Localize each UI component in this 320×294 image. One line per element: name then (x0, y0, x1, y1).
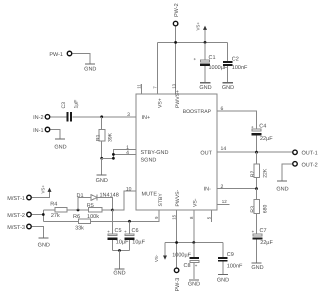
connector pad OUT-2 (293, 162, 318, 169)
connector pad PW-3 (174, 268, 181, 291)
connector pad PW-1 (49, 51, 71, 58)
svg-text:GND: GND (38, 243, 50, 249)
wire C3 to pin 3 (72, 116, 136, 118)
wire C2 to ground (227, 66, 229, 82)
wire mute node to pin 10 (113, 191, 137, 210)
svg-text:OUT-1: OUT-1 (302, 151, 318, 157)
junction at sgnd corner (112, 157, 115, 160)
svg-text:C2: C2 (232, 57, 239, 63)
svg-text:SGND: SGND (141, 158, 157, 164)
wire pin 2 IN- to feedback node (217, 188, 257, 190)
svg-text:IN-1: IN-1 (33, 128, 43, 134)
ground (C5/C6) (113, 269, 125, 277)
svg-text:OUT-2: OUT-2 (302, 162, 318, 168)
svg-text:GND: GND (54, 145, 66, 151)
ground (C8) (188, 280, 200, 288)
svg-text:10µF: 10µF (116, 240, 129, 246)
svg-text:R4: R4 (50, 202, 57, 208)
svg-text:IN-: IN- (204, 187, 212, 193)
svg-text:12: 12 (222, 199, 227, 204)
wire pin 8 to rail (193, 210, 195, 243)
junction M/ST-2 (42, 213, 45, 216)
wire VS+ rail (top) (158, 41, 228, 43)
svg-text:33k: 33k (75, 226, 84, 232)
svg-text:100nF: 100nF (227, 263, 243, 269)
svg-text:22µF: 22µF (260, 136, 273, 142)
node OUT junction (255, 151, 258, 154)
svg-text:PW-3: PW-3 (175, 278, 181, 292)
wire rail to C1 (204, 42, 206, 59)
svg-text:100nF: 100nF (232, 65, 248, 71)
svg-text:PWVS+: PWVS+ (175, 90, 181, 108)
svg-text:GND: GND (251, 265, 263, 271)
node A junction (77, 209, 80, 212)
pin 5 stub (207, 210, 212, 222)
wire R5 to mute node (102, 209, 113, 211)
svg-text:C3: C3 (61, 102, 67, 109)
svg-text:8: 8 (189, 216, 194, 219)
capacitor C8 1000uF (172, 243, 199, 280)
connector pad OUT-1 (293, 150, 318, 156)
svg-text:10µF: 10µF (132, 240, 145, 246)
svg-text:GND: GND (188, 281, 200, 287)
svg-text:GND: GND (113, 271, 125, 277)
wire C7 to ground (256, 240, 258, 263)
svg-text:PW-2: PW-2 (174, 3, 180, 17)
wire rail to C9 (222, 243, 224, 257)
svg-text:M/ST-2: M/ST-2 (7, 213, 25, 219)
ground (C1) (199, 83, 211, 91)
svg-text:14: 14 (221, 146, 227, 152)
svg-text:+: + (194, 57, 197, 62)
svg-text:VS-: VS- (193, 198, 199, 207)
svg-text:BOOSTRAP: BOOSTRAP (183, 109, 212, 115)
svg-text:11: 11 (136, 84, 141, 89)
svg-text:7: 7 (153, 86, 158, 89)
svg-text:9: 9 (154, 216, 159, 219)
node R1 bottom junction (100, 157, 103, 160)
wire R1 bottom to ground (101, 158, 103, 174)
svg-text:M/ST-1: M/ST-1 (7, 196, 25, 202)
svg-text:+: + (252, 229, 255, 234)
svg-text:IN+: IN+ (142, 115, 151, 121)
wire M/ST-2 to network (32, 210, 55, 221)
pin 11 stub (136, 84, 141, 94)
node IN- junction (255, 187, 258, 190)
ground (C7) (251, 263, 263, 271)
svg-text:+: + (251, 124, 254, 129)
svg-text:C1: C1 (209, 55, 216, 61)
wire pin 15 through rail to PW-3 (176, 210, 178, 267)
wire OUT-2 to ground (282, 164, 292, 181)
junction rail at pin 8 (192, 241, 195, 244)
wire C5/C6 ground bus (113, 250, 130, 252)
wire C1 to ground (204, 66, 206, 82)
svg-text:GND: GND (276, 187, 288, 193)
junction on rail at VS+/C1 (204, 41, 207, 44)
supply flag VS+ (top) (196, 22, 208, 43)
supply flag VS+ (M/ST-1) (41, 185, 52, 194)
svg-text:27k: 27k (51, 213, 60, 219)
wire M/ST-3 to ground (32, 227, 43, 238)
svg-text:+: + (107, 229, 110, 234)
capacitor C4 22uF (251, 124, 273, 142)
svg-text:1µF: 1µF (74, 100, 80, 109)
svg-text:C5: C5 (115, 228, 122, 234)
connector pad PW-2 (173, 3, 180, 26)
svg-text:STBY-GND: STBY-GND (141, 150, 169, 156)
svg-text:OUT: OUT (200, 150, 212, 156)
svg-text:1000µF: 1000µF (209, 65, 228, 71)
svg-text:GND: GND (84, 67, 96, 73)
svg-text:R1: R1 (96, 134, 102, 141)
ground (M/ST-3) (38, 238, 50, 249)
connector pad M/ST-1 (7, 195, 31, 202)
capacitor C1 1000uF (194, 55, 228, 71)
svg-text:4: 4 (126, 150, 129, 156)
svg-text:1000µF: 1000µF (172, 252, 191, 258)
svg-text:GND: GND (199, 85, 211, 91)
capacitor C6 10uF (124, 221, 145, 250)
ground (R1) (96, 175, 108, 184)
junction on rail at PW-2 (174, 41, 177, 44)
svg-text:GND: GND (222, 85, 234, 91)
svg-text:IN-2: IN-2 (33, 115, 43, 121)
ground (IN-1) (54, 139, 66, 151)
svg-text:GND: GND (217, 278, 229, 284)
svg-text:+: + (195, 263, 198, 268)
ground (OUT-2) (276, 181, 288, 193)
svg-text:PW-1: PW-1 (49, 52, 63, 58)
wire bus to ground (119, 251, 121, 269)
wire ground node to pins 1 and 4 (102, 150, 136, 159)
wire C4 to out node (256, 135, 258, 152)
svg-text:VS-: VS- (154, 254, 159, 262)
svg-text:VS+: VS+ (196, 22, 201, 31)
wire IN-2 to C3 (50, 116, 66, 118)
supply flag VS- (154, 243, 167, 263)
svg-text:680: 680 (263, 205, 269, 214)
svg-text:1N4148: 1N4148 (100, 193, 119, 199)
junction ground bus (118, 249, 121, 252)
wire M/ST-1 to supply flag (32, 192, 50, 198)
wire R4 to R5 (67, 209, 89, 211)
svg-text:VS+: VS+ (41, 185, 46, 194)
ground (C2) (222, 83, 234, 91)
capacitor C2 100nF (223, 57, 248, 72)
ground (C9) (217, 275, 229, 284)
svg-text:MUTE: MUTE (142, 192, 158, 198)
svg-text:C9: C9 (227, 252, 234, 258)
resistor R6 33k (43, 214, 90, 231)
resistor R3 680 (250, 189, 268, 234)
wire pin 14 OUT to OUT-1 (217, 151, 292, 153)
connector pad M/ST-2 (7, 212, 31, 219)
svg-text:C6: C6 (132, 228, 139, 234)
junction at pin 4 tee (112, 153, 115, 156)
svg-text:39K: 39K (108, 132, 114, 142)
svg-text:15: 15 (172, 214, 177, 219)
capacitor C7 22uF (252, 228, 274, 246)
wire rail to C2 (227, 42, 229, 61)
svg-text:M/ST-3: M/ST-3 (7, 225, 25, 231)
wire R6 to stby node and pin 9 (91, 210, 159, 221)
svg-text:+: + (124, 229, 127, 234)
diode D1 1N4148 (76, 193, 118, 210)
junction rail at pin 15 (175, 241, 178, 244)
wire PW-2 through rail to pin 13 (175, 27, 177, 94)
resistor R2 22K (250, 152, 268, 188)
svg-text:VS+: VS+ (158, 98, 164, 108)
svg-text:5: 5 (207, 216, 212, 219)
ground (PW-1) (84, 64, 96, 73)
node C junction (stby) (128, 220, 131, 223)
capacitor C9 100nF (218, 252, 243, 274)
svg-text:22K: 22K (263, 168, 269, 178)
resistor R1 39K (96, 117, 114, 159)
capacitor C5 10uF (107, 210, 129, 251)
wire pin 6 bootstrap to C4 (217, 111, 257, 129)
wire VS- rail (bottom) (165, 242, 223, 244)
connector pad M/ST-3 (7, 224, 31, 231)
resistor R5 100k (87, 203, 102, 220)
svg-text:C7: C7 (260, 228, 267, 234)
node B junction (mute) (111, 209, 114, 212)
svg-text:13: 13 (171, 83, 176, 88)
connector pad IN-2 (33, 115, 50, 122)
svg-text:STBY: STBY (158, 193, 164, 207)
svg-text:C8: C8 (183, 263, 190, 269)
wire PW-1 to ground (72, 54, 89, 64)
svg-text:PWVS-: PWVS- (175, 189, 181, 206)
wire rail to pin 7 (157, 42, 159, 94)
svg-text:GND: GND (96, 178, 108, 184)
connector pad IN-1 (33, 127, 50, 134)
pin 12 stub (217, 199, 230, 204)
resistor R4 27k (50, 202, 67, 220)
wire IN-1 to ground (50, 130, 60, 139)
node IN+ junction (100, 115, 103, 118)
svg-text:22µF: 22µF (260, 240, 273, 246)
op-amp U1 TDA7294 body (136, 94, 217, 210)
capacitor C3 1uF (61, 100, 80, 122)
